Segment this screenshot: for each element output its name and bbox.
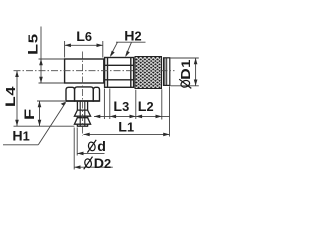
dimension L5 line — [40, 27, 42, 84]
H2 leader arrows — [110, 51, 115, 57]
label phiD2 — [84, 156, 111, 172]
barb tip extension line — [14, 125, 75, 127]
extension line hex left a — [103, 89, 105, 120]
svg-text:D1: D1 — [179, 59, 193, 80]
dimension phid line — [77, 152, 104, 154]
hex nut (width H1) — [66, 87, 100, 101]
dimension L6 line — [65, 44, 103, 46]
dimension L6 extension lines — [65, 41, 103, 58]
H1 leader line — [38, 103, 65, 145]
dimension phiD2 arrow — [74, 165, 80, 169]
dimension L4 line — [16, 71, 18, 126]
dimension line L3 / L2 — [94, 115, 170, 117]
svg-text:F: F — [22, 109, 38, 120]
svg-text:L4: L4 — [3, 86, 18, 107]
dimension phiD2 extension line — [73, 128, 75, 170]
svg-text:L1: L1 — [118, 120, 134, 136]
svg-text:H2: H2 — [124, 29, 141, 45]
dimension phid arrow — [77, 152, 83, 156]
svg-text:D2: D2 — [94, 156, 111, 172]
dimension L3 / L2 arrows — [94, 115, 100, 119]
dimension L6 arrows — [65, 44, 71, 48]
dimension phiD1 arrows — [194, 58, 198, 64]
dimension phid extension line — [76, 128, 78, 156]
svg-text:L6: L6 — [76, 29, 92, 45]
label phiD1 (rotated) — [179, 59, 193, 88]
dimension L1 line — [83, 133, 169, 135]
dimension phiD1 line — [195, 58, 197, 86]
extension line cap right — [169, 86, 171, 136]
H2 leader lines — [111, 42, 146, 55]
svg-text:d: d — [97, 139, 106, 155]
hose barb stem and ridges — [74, 101, 90, 126]
dimension phiD2 line — [74, 166, 113, 168]
centerline vertical axis — [82, 52, 84, 137]
svg-text:L5: L5 — [25, 33, 41, 55]
label phid — [87, 139, 106, 155]
H1 leader arrow — [61, 102, 67, 106]
dimension L5 extension lines — [39, 59, 65, 83]
extension line knurl left — [135, 90, 137, 119]
dimension F line — [39, 101, 41, 126]
hex section (width H2) — [105, 58, 134, 88]
extension line knurl right — [161, 89, 163, 119]
dimension L4 arrows — [15, 71, 19, 77]
knurled sleeve — [135, 57, 162, 89]
elbow body block — [65, 59, 104, 83]
end cap ring — [164, 58, 170, 86]
dimension F arrows — [38, 101, 42, 107]
barb bore lines — [80, 101, 85, 126]
dimension L1 arrows — [83, 133, 89, 137]
dimension L5 arrows — [39, 59, 43, 65]
extension line hex left b — [109, 89, 111, 120]
dimension phiD1 extension lines — [171, 58, 199, 86]
H1 underline — [3, 144, 38, 146]
dimension F extension line — [37, 100, 65, 102]
svg-text:L3: L3 — [113, 99, 129, 115]
svg-text:L2: L2 — [138, 99, 154, 115]
centerline horizontal axis — [14, 70, 136, 72]
svg-text:H1: H1 — [12, 128, 29, 144]
